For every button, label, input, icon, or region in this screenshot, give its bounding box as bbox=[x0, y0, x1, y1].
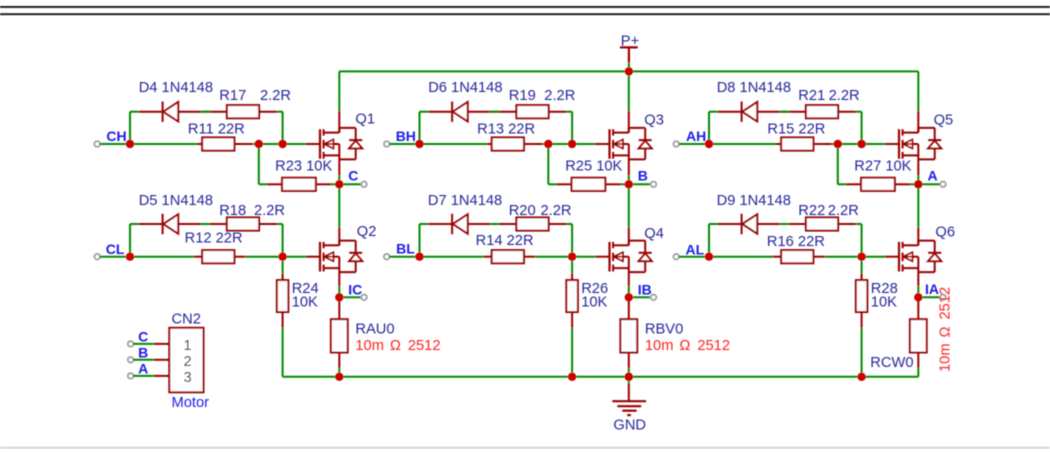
wire P+ rail bbox=[339, 70, 918, 72]
resistor R17 2.2R bbox=[227, 105, 259, 118]
resistor R11 22R bbox=[202, 137, 234, 150]
wire BL lead bbox=[389, 256, 416, 258]
diode D6 bbox=[451, 102, 453, 122]
diode D9 bbox=[741, 214, 743, 234]
resistor R14 22R bbox=[492, 250, 524, 263]
wire CL to R12 bbox=[134, 256, 194, 258]
diode D8 bbox=[741, 102, 743, 122]
sheet frame top line 2 bbox=[0, 13, 1050, 15]
wire CN2 pin1 bbox=[133, 343, 154, 345]
wire RAU0 bottom lead bbox=[338, 353, 340, 369]
junction node CL bbox=[126, 253, 134, 261]
wire node IB stub bbox=[633, 296, 651, 298]
power flag P+ bbox=[620, 46, 638, 48]
wire 10K branch down bbox=[258, 144, 260, 184]
wire CL lead bbox=[100, 256, 127, 258]
svg-text:Q2: Q2 bbox=[357, 224, 377, 240]
svg-text:BL: BL bbox=[396, 241, 415, 257]
pin AH input bbox=[673, 141, 679, 147]
pin node IB bbox=[651, 295, 657, 301]
wire R28 top lead bbox=[861, 261, 863, 274]
wire BH lead bbox=[389, 143, 416, 145]
svg-text:R23 10K: R23 10K bbox=[275, 159, 332, 175]
wire CH up to diode row bbox=[129, 112, 131, 144]
pin node B bbox=[651, 182, 657, 188]
transistor Q3 bbox=[608, 129, 610, 159]
junction RAU0 at bus bbox=[335, 373, 343, 381]
resistor R20 2.2R bbox=[516, 217, 548, 230]
svg-text:R21: R21 bbox=[798, 88, 825, 104]
svg-text:B: B bbox=[138, 345, 148, 361]
svg-text:R22: R22 bbox=[798, 203, 825, 219]
svg-text:R12 22R: R12 22R bbox=[185, 231, 243, 247]
wire R13 out bbox=[524, 143, 542, 145]
resistor R25 10K bbox=[572, 178, 606, 191]
svg-text:3: 3 bbox=[184, 370, 192, 386]
wire GND bus bbox=[283, 376, 919, 378]
svg-text:D7 1N4148: D7 1N4148 bbox=[428, 193, 502, 209]
svg-text:Q6: Q6 bbox=[935, 225, 955, 241]
junction R17 branch bbox=[278, 140, 286, 148]
svg-text:R27 10K: R27 10K bbox=[854, 159, 911, 175]
wire R25 to node B bbox=[605, 183, 620, 185]
junction R28 at bus bbox=[857, 373, 865, 381]
wire R27 to node A bbox=[895, 183, 910, 185]
wire R16 out bbox=[813, 256, 824, 258]
resistor RBV0 shunt bbox=[620, 319, 637, 352]
svg-text:10K: 10K bbox=[292, 295, 318, 311]
svg-text:2: 2 bbox=[184, 354, 192, 370]
svg-text:R17: R17 bbox=[219, 88, 246, 104]
svg-text:RBV0: RBV0 bbox=[645, 321, 683, 337]
pin CN2 pin3 bbox=[128, 373, 134, 379]
junction gate node Q4 bbox=[568, 253, 576, 261]
svg-text:R13 22R: R13 22R bbox=[477, 121, 535, 137]
wire RBV0 bottom lead bbox=[628, 353, 630, 369]
transistor Q2 bbox=[319, 242, 321, 272]
connector CN2 body bbox=[169, 328, 203, 393]
wire diode to R19 bbox=[468, 111, 517, 113]
resistor R26 10K bbox=[566, 280, 578, 312]
wire R24 to bus bbox=[282, 312, 284, 328]
svg-text:CL: CL bbox=[106, 241, 125, 257]
svg-text:R19: R19 bbox=[509, 88, 536, 104]
svg-text:Motor: Motor bbox=[172, 395, 210, 411]
wire source Q3 to node B bbox=[628, 159, 630, 175]
wire R14 out bbox=[524, 256, 535, 258]
svg-text:R11 22R: R11 22R bbox=[188, 121, 245, 137]
wire AH to R15 bbox=[713, 143, 776, 145]
junction GND at bus bbox=[625, 373, 633, 381]
junction RBV0 at bus bbox=[625, 373, 633, 381]
wire diode to R18 bbox=[178, 223, 227, 225]
svg-text:IC: IC bbox=[348, 282, 362, 298]
svg-text:10m Ω 2512: 10m Ω 2512 bbox=[355, 338, 440, 354]
svg-text:D8 1N4148: D8 1N4148 bbox=[717, 80, 791, 96]
wire AH up to diode row bbox=[708, 112, 710, 144]
wire drain Q6 bbox=[917, 184, 919, 227]
wire R22 to gate row bbox=[838, 223, 856, 225]
wire drain Q2 bbox=[338, 184, 340, 227]
resistor R19 2.2R bbox=[516, 105, 548, 118]
pin BL input bbox=[384, 254, 390, 260]
svg-text:2.2R: 2.2R bbox=[828, 203, 859, 219]
svg-text:C: C bbox=[138, 329, 148, 345]
junction node AL bbox=[705, 253, 713, 261]
svg-text:1: 1 bbox=[184, 338, 192, 354]
wire node A stub bbox=[922, 183, 940, 185]
wire R17 to gate row bbox=[259, 111, 277, 113]
junction node AH bbox=[705, 140, 713, 148]
junction node CH bbox=[126, 140, 134, 148]
sheet frame top line 1 bbox=[0, 6, 1050, 8]
wire gate lead Q5 bbox=[862, 143, 885, 145]
svg-text:2.2R: 2.2R bbox=[829, 88, 860, 104]
junction node BH bbox=[415, 140, 423, 148]
svg-text:RCW0: RCW0 bbox=[870, 355, 913, 371]
wire AH lead bbox=[679, 143, 706, 145]
wire diode D8 anode lead bbox=[718, 111, 742, 113]
svg-text:AL: AL bbox=[686, 242, 705, 258]
wire diode to R20 bbox=[468, 223, 517, 225]
resistor R28 10K bbox=[856, 280, 868, 312]
wire R20 to gate row bbox=[549, 223, 567, 225]
pin CH input bbox=[94, 141, 100, 147]
svg-text:2.2R: 2.2R bbox=[254, 203, 285, 219]
wire R11 out bbox=[234, 143, 252, 145]
wire gate lead Q1 bbox=[283, 143, 306, 145]
svg-text:B: B bbox=[638, 168, 648, 184]
wire BL to R14 bbox=[423, 256, 483, 258]
junction node BL bbox=[415, 253, 423, 261]
resistor R16 22R bbox=[781, 250, 813, 263]
wire source Q1 to node C bbox=[338, 159, 340, 175]
wire drain Q1 bbox=[338, 71, 340, 111]
svg-text:C: C bbox=[348, 168, 358, 184]
junction gate branch Q5 bbox=[834, 140, 842, 148]
svg-text:Q5: Q5 bbox=[934, 113, 954, 129]
pin node A bbox=[940, 182, 946, 188]
junction gate node Q6 bbox=[857, 253, 865, 261]
wire R21 to gate row bbox=[838, 111, 856, 113]
wire diode D4 anode lead bbox=[139, 111, 163, 113]
wire R18 to gate row bbox=[259, 223, 277, 225]
transistor Q4 bbox=[608, 242, 610, 272]
wire source Q5 to node A bbox=[917, 159, 919, 175]
svg-text:R14 22R: R14 22R bbox=[476, 233, 534, 249]
wire RAU0 top lead bbox=[338, 297, 340, 319]
resistor R24 10K bbox=[277, 280, 289, 312]
wire source Q2 bbox=[338, 272, 340, 286]
diode D5 bbox=[162, 214, 164, 234]
junction R21 branch bbox=[857, 140, 865, 148]
wire gate lead Q4 bbox=[572, 256, 595, 258]
wire RCW0 bottom lead bbox=[917, 353, 919, 369]
svg-text:2.2R: 2.2R bbox=[260, 88, 291, 104]
wire node C stub bbox=[343, 183, 361, 185]
wire RBV0 top lead bbox=[628, 297, 630, 319]
pin CN2 pin1 bbox=[128, 341, 134, 347]
svg-text:BH: BH bbox=[396, 128, 416, 144]
window bottom edge band bbox=[0, 447, 1050, 449]
transistor Q6 bbox=[898, 242, 900, 272]
wire node IA stub bbox=[922, 296, 940, 298]
svg-text:R20: R20 bbox=[509, 203, 536, 219]
svg-text:D4 1N4148: D4 1N4148 bbox=[139, 80, 213, 96]
wire BH up to diode row bbox=[419, 112, 421, 144]
svg-text:A: A bbox=[138, 361, 148, 377]
wire CL up to diode row bbox=[129, 224, 131, 257]
wire source Q6 bbox=[917, 272, 919, 286]
wire AL to R16 bbox=[713, 256, 773, 258]
resistor R22 2.2R bbox=[806, 217, 838, 230]
resistor R27 10K bbox=[861, 178, 895, 191]
svg-text:CN2: CN2 bbox=[172, 312, 201, 328]
resistor R23 10K bbox=[282, 178, 316, 191]
wire R19 to gate row bbox=[549, 111, 567, 113]
pin CL input bbox=[94, 254, 100, 260]
wire drain Q4 bbox=[628, 184, 630, 227]
pin node IA bbox=[940, 295, 946, 301]
wire AL lead bbox=[679, 256, 706, 258]
wire node IC stub bbox=[343, 296, 361, 298]
svg-text:AH: AH bbox=[686, 128, 706, 144]
junction gate node Q2 bbox=[278, 253, 286, 261]
svg-text:2.2R: 2.2R bbox=[541, 203, 572, 219]
svg-text:A: A bbox=[928, 168, 938, 184]
svg-text:GND: GND bbox=[613, 417, 646, 433]
svg-text:Q3: Q3 bbox=[644, 113, 664, 129]
svg-text:2.2R: 2.2R bbox=[544, 88, 575, 104]
svg-text:RAU0: RAU0 bbox=[355, 321, 394, 337]
resistor R15 22R bbox=[781, 137, 813, 150]
wire drain Q3 bbox=[628, 71, 630, 111]
pin BH input bbox=[384, 141, 390, 147]
wire R26 to bus bbox=[571, 312, 573, 328]
junction R19 branch bbox=[568, 140, 576, 148]
junction gate branch Q1 bbox=[255, 140, 263, 148]
junction node C bbox=[335, 180, 343, 188]
junction R26 at bus bbox=[568, 373, 576, 381]
wire drain Q5 bbox=[917, 71, 919, 111]
transistor Q5 bbox=[898, 129, 900, 159]
svg-text:10m Ω 2512: 10m Ω 2512 bbox=[645, 338, 730, 354]
junction node IA bbox=[914, 293, 922, 301]
junction gate branch Q3 bbox=[544, 140, 552, 148]
svg-text:10K: 10K bbox=[871, 295, 897, 311]
diode D4 bbox=[162, 102, 164, 122]
ground GND symbol bbox=[628, 377, 630, 384]
resistor R21 2.2R bbox=[806, 105, 838, 118]
wire R24 top lead bbox=[282, 261, 284, 274]
svg-text:Q1: Q1 bbox=[355, 111, 375, 127]
wire node B stub bbox=[633, 183, 651, 185]
diode D7 bbox=[451, 214, 453, 234]
wire diode to R22 bbox=[757, 223, 806, 225]
svg-text:CH: CH bbox=[106, 128, 126, 144]
wire diode D9 anode lead bbox=[718, 223, 742, 225]
resistor RCW0 shunt bbox=[910, 319, 927, 352]
svg-text:Q4: Q4 bbox=[644, 226, 664, 242]
wire diode D5 anode lead bbox=[139, 223, 163, 225]
pin node IC bbox=[361, 295, 367, 301]
wire 10K branch down bbox=[837, 144, 839, 184]
svg-text:R16 22R: R16 22R bbox=[767, 234, 825, 250]
svg-text:IB: IB bbox=[638, 282, 652, 298]
svg-text:D6 1N4148: D6 1N4148 bbox=[428, 80, 502, 96]
wire R23 to node C bbox=[316, 183, 331, 185]
wire gate lead Q2 bbox=[283, 256, 306, 258]
wire diode D6 anode lead bbox=[428, 111, 452, 113]
wire 10K branch down bbox=[547, 144, 549, 184]
wire CH lead bbox=[100, 143, 127, 145]
wire source Q4 bbox=[628, 272, 630, 286]
wire diode to R17 bbox=[178, 111, 227, 113]
svg-text:R18: R18 bbox=[219, 203, 246, 219]
resistor R18 2.2R bbox=[227, 217, 259, 230]
pin node C bbox=[361, 182, 367, 188]
junction P+ rail bbox=[625, 67, 633, 75]
wire R12 out bbox=[234, 256, 245, 258]
svg-text:10m Ω 2512: 10m Ω 2512 bbox=[937, 287, 953, 372]
pin AL input bbox=[673, 254, 679, 260]
wire R26 top lead bbox=[571, 261, 573, 274]
wire CH to R11 bbox=[134, 143, 197, 145]
pin CN2 pin2 bbox=[128, 357, 134, 363]
svg-text:P+: P+ bbox=[621, 33, 639, 49]
svg-text:D5 1N4148: D5 1N4148 bbox=[139, 193, 213, 209]
wire AL up to diode row bbox=[708, 224, 710, 257]
transistor Q1 bbox=[319, 129, 321, 159]
wire R28 to bus bbox=[861, 312, 863, 328]
wire gate lead Q3 bbox=[572, 143, 595, 145]
resistor RAU0 shunt bbox=[331, 319, 348, 352]
wire R15 out bbox=[813, 143, 831, 145]
wire diode to R21 bbox=[757, 111, 806, 113]
svg-text:D9 1N4148: D9 1N4148 bbox=[717, 193, 791, 209]
wire diode D7 anode lead bbox=[428, 223, 452, 225]
svg-text:R25 10K: R25 10K bbox=[565, 159, 622, 175]
junction node IC bbox=[335, 293, 343, 301]
svg-text:10K: 10K bbox=[581, 295, 607, 311]
wire RCW0 top lead bbox=[917, 297, 919, 319]
junction node A bbox=[914, 180, 922, 188]
resistor R12 22R bbox=[202, 250, 234, 263]
junction node B bbox=[625, 180, 633, 188]
wire BL up to diode row bbox=[419, 224, 421, 257]
wire CN2 pin3 bbox=[133, 375, 154, 377]
resistor R13 22R bbox=[492, 137, 524, 150]
wire gate lead Q6 bbox=[862, 256, 885, 258]
wire CN2 pin2 bbox=[133, 359, 154, 361]
junction node IB bbox=[625, 293, 633, 301]
svg-text:R15 22R: R15 22R bbox=[767, 121, 825, 137]
wire BH to R13 bbox=[423, 143, 486, 145]
